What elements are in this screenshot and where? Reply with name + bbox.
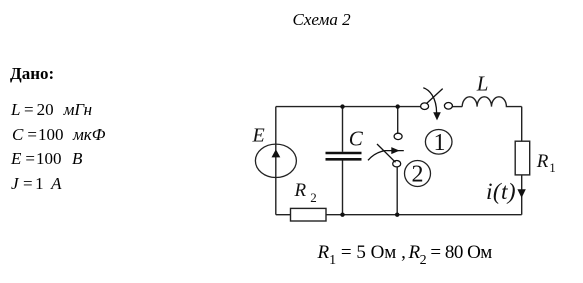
wire left branch vertical [275,107,277,215]
label circled 2 [405,161,431,187]
given E [11,149,82,169]
svg-text:L: L [476,72,489,96]
label circled 1 [425,130,452,155]
wire capacitor branch lower [342,161,344,215]
bottom values part 1 [318,242,406,269]
switch 1 motion arc [423,88,436,113]
switch 2 top terminal [394,133,402,139]
junction dot top switch-2 [396,104,400,108]
wire switch-2 branch upper [397,107,399,134]
wire switch-1 to inductor [452,106,462,108]
junction dot top capacitor [340,104,344,108]
switch 2 motion arrowhead [391,147,399,154]
svg-text:E: E [252,125,265,147]
svg-text:R: R [536,151,549,172]
current arrow i(t) [517,189,525,198]
given L [11,100,92,120]
svg-text:2: 2 [412,162,424,188]
svg-text:1: 1 [434,130,446,156]
bottom values part 2 [409,242,492,269]
junction dot bottom switch-2 [395,213,399,217]
switch 1 left terminal [421,103,429,110]
wire top left segment [276,106,421,108]
svg-text:1: 1 [549,160,556,175]
wire capacitor branch upper [342,107,344,152]
source E arrow [272,149,281,157]
given-block heading [10,64,54,84]
capacitor C plates [326,153,362,159]
given J [11,174,62,194]
source E circle [255,144,296,177]
switch 2 bottom terminal [393,161,401,167]
inductor L coil [462,97,522,107]
resistor R2 [291,208,327,221]
junction dot bottom capacitor [340,213,344,217]
switch 1 right terminal [444,103,452,110]
given C [12,125,105,145]
wire right branch below R1 [521,175,523,215]
wire switch-2 branch lower [396,167,398,215]
svg-text:i(t): i(t) [486,179,516,205]
switch 2 motion arc [368,151,404,161]
wire bottom left of R2 [276,214,291,216]
switch 1 motion arrowhead [433,112,441,120]
resistor R1 [515,141,530,175]
switch 1 blade [427,89,443,104]
switch 2 blade [377,144,396,162]
wire bottom right of R2 [326,214,522,216]
title [293,10,351,30]
svg-text:C: C [349,126,364,150]
wire right branch above R1 [521,107,523,142]
svg-text:2: 2 [310,190,317,205]
svg-text:R: R [294,180,307,201]
